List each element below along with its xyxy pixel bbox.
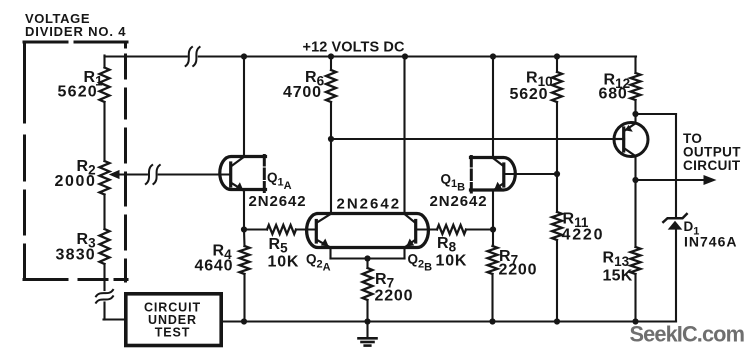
transistor Q1B package xyxy=(471,157,516,193)
label Q1A xyxy=(267,170,292,192)
svg-text:15K: 15K xyxy=(603,268,633,285)
svg-text:10K: 10K xyxy=(268,254,300,271)
svg-text:CIRCUIT: CIRCUIT xyxy=(683,158,741,173)
resistor R13 xyxy=(631,247,641,274)
wire +12V rail xyxy=(105,55,637,57)
wire R2 to R3 xyxy=(103,195,105,230)
resistor R1 xyxy=(100,68,110,103)
value 3830 (R3) xyxy=(56,247,96,264)
Q2B base bar xyxy=(414,221,417,243)
Q2B collector lead xyxy=(405,214,416,223)
resistor R10 xyxy=(552,72,562,102)
wire junction to R5 xyxy=(244,228,267,230)
label 2N2642 (Q1A) xyxy=(249,193,307,210)
value 4700 (R6) xyxy=(283,84,322,101)
label R4 xyxy=(213,243,233,263)
node R12 emitter xyxy=(632,111,638,117)
svg-text:2N2642: 2N2642 xyxy=(337,196,402,213)
wire Q2B base to R8 xyxy=(416,228,438,230)
label R11 xyxy=(563,211,589,231)
node rail-Q1B xyxy=(490,53,496,59)
wire R1 to R2 xyxy=(103,102,105,161)
wire R7 to bottom rail xyxy=(366,300,368,322)
label R6 xyxy=(305,69,325,89)
diode D1 zener xyxy=(663,214,686,230)
transistor Q3 output xyxy=(614,123,648,157)
label R5 xyxy=(269,236,289,256)
value 4220 (R11) xyxy=(562,227,605,244)
wire R13 to bottom rail xyxy=(634,274,636,322)
resistor R4 xyxy=(240,246,250,274)
wire Q1B base to R10 line xyxy=(505,173,557,175)
svg-text:+12 VOLTS DC: +12 VOLTS DC xyxy=(303,40,405,56)
svg-text:5620: 5620 xyxy=(510,86,549,103)
node bottom-R7b xyxy=(489,318,495,324)
resistor R6 xyxy=(326,70,336,102)
wire node to D1 branch xyxy=(636,114,677,219)
break symbol below R3 xyxy=(96,290,113,303)
break symbol on +12V rail xyxy=(186,47,200,66)
label R7 (Q1B) xyxy=(499,248,518,268)
wire R11 to bottom rail xyxy=(556,240,558,322)
node bottom-R4 xyxy=(241,318,247,324)
svg-text:4700: 4700 xyxy=(283,84,322,101)
label 2N2642 (Q1B) xyxy=(430,193,488,210)
wire junction to R4 xyxy=(243,230,246,247)
resistor R11 xyxy=(552,212,562,240)
value 2200 (R7 Q1B) xyxy=(499,262,538,279)
resistor R5 xyxy=(267,225,296,234)
svg-text:2000: 2000 xyxy=(55,173,97,190)
svg-text:DIVIDER NO. 4: DIVIDER NO. 4 xyxy=(25,24,126,39)
SeekIC.com watermark xyxy=(630,322,745,347)
label R12 xyxy=(604,72,631,92)
wire bottom rail xyxy=(244,320,676,322)
svg-text:10K: 10K xyxy=(436,253,468,270)
label R13 xyxy=(603,250,630,270)
resistor R12 xyxy=(631,73,641,100)
label 2N2642 (Q2) xyxy=(337,196,402,213)
node R8 junction xyxy=(490,226,496,232)
CIRCUIT UNDER TEST box xyxy=(126,294,221,346)
wire node to Q2A collector xyxy=(330,139,332,214)
node rail-R6 xyxy=(328,53,334,59)
voltage divider title xyxy=(25,11,126,39)
value IN746A (D1) xyxy=(684,234,737,250)
svg-text:4640: 4640 xyxy=(195,258,234,275)
svg-text:TEST: TEST xyxy=(155,326,191,340)
wire box to ground rail xyxy=(222,320,245,322)
svg-text:2N2642: 2N2642 xyxy=(249,193,307,210)
wire base feed line xyxy=(331,138,614,140)
resistor R2 potentiometer xyxy=(100,161,110,195)
wire rail to Q1B collector xyxy=(492,57,494,159)
ground xyxy=(359,322,377,346)
label Q2B xyxy=(408,252,433,274)
R2 wiper arrow xyxy=(109,170,147,179)
svg-text:Q2B: Q2B xyxy=(408,252,433,274)
wire bus to R7 xyxy=(366,259,368,269)
node rail-Q1A xyxy=(241,53,247,59)
resistor R8 xyxy=(437,225,466,234)
Q3 base lead xyxy=(614,138,624,140)
wire to output arrow xyxy=(636,175,717,185)
wire rail to R10 xyxy=(556,57,558,73)
Q1A collector lead xyxy=(232,157,245,166)
node bottom-R13 xyxy=(632,318,638,324)
wire R6 to node xyxy=(330,102,332,139)
node bottom-R11 xyxy=(554,318,560,324)
resistor R3 xyxy=(100,229,110,264)
wire R3 down xyxy=(103,264,105,290)
wire Q1B emitter down xyxy=(492,190,494,246)
break symbol on wiper wire xyxy=(146,165,160,184)
wire to circuit-under-test box xyxy=(104,303,127,320)
svg-text:IN746A: IN746A xyxy=(684,234,737,250)
Q1B collector lead xyxy=(493,158,503,166)
node rail-R10 xyxy=(554,53,560,59)
node emitter bus R7 xyxy=(364,255,370,261)
svg-text:R13: R13 xyxy=(603,250,630,270)
wire D1 to bottom rail xyxy=(675,230,677,322)
value 10K (R5) xyxy=(268,254,300,271)
wire rail to R1 xyxy=(103,56,105,68)
svg-text:Q1A: Q1A xyxy=(267,170,292,192)
wire R4 to bottom rail xyxy=(243,274,245,322)
label R8 xyxy=(437,235,457,255)
value 10K (R8) xyxy=(436,253,468,270)
Q1B base bar xyxy=(502,164,505,186)
resistor R7 (Q1B) xyxy=(488,246,498,274)
Q1A emitter lead xyxy=(232,182,244,190)
label D1 xyxy=(684,219,700,237)
value 2200 (R7 Q2) xyxy=(375,288,414,305)
label Q2A xyxy=(306,252,331,274)
svg-text:Q2A: Q2A xyxy=(306,252,331,274)
svg-text:4220: 4220 xyxy=(562,227,605,244)
node Q3 collector output xyxy=(632,177,638,183)
svg-text:2N2642: 2N2642 xyxy=(430,193,488,210)
svg-text:2200: 2200 xyxy=(375,288,414,305)
node bottom-R7a xyxy=(364,318,370,324)
svg-text:3830: 3830 xyxy=(56,247,96,264)
value 2000 (R2) xyxy=(55,173,97,190)
value 5620 (R1) xyxy=(58,84,98,101)
value 15K (R13) xyxy=(603,268,633,285)
Q1B emitter lead xyxy=(494,182,503,190)
Q2A emitter stub xyxy=(329,248,331,259)
svg-text:2200: 2200 xyxy=(499,262,538,279)
svg-text:Q1B: Q1B xyxy=(441,172,466,194)
Q2A base bar xyxy=(315,221,318,243)
label R2 xyxy=(77,158,96,178)
Q2B emitter stub xyxy=(403,248,405,259)
value 4640 (R4) xyxy=(195,258,234,275)
resistor R7 (Q2 emitters) xyxy=(363,268,373,300)
TO OUTPUT CIRCUIT label xyxy=(683,131,741,173)
Q3 collector lead xyxy=(625,149,636,157)
Q3 base bar xyxy=(622,128,625,151)
wire rail to Q1A collector xyxy=(243,57,245,158)
node rail-Q2B xyxy=(402,53,408,59)
label R10 xyxy=(526,70,553,90)
label R7 (Q2) xyxy=(375,271,394,291)
transistor Q1A package xyxy=(220,156,266,192)
wire emitter bus xyxy=(331,257,405,259)
wire R5 to Q2A base xyxy=(296,228,316,230)
wire rail to R6 xyxy=(330,57,332,71)
wire R7b to bottom rail xyxy=(491,274,493,322)
Q2A collector lead xyxy=(317,214,331,223)
wire Q3 collector down xyxy=(634,156,636,247)
label Q1B xyxy=(441,172,466,194)
wire Q1A emitter down xyxy=(243,191,245,230)
node Q1A emitter junction xyxy=(241,226,247,232)
node Q1B base junction xyxy=(554,171,560,177)
voltage divider dashed box xyxy=(24,42,127,281)
CIRCUIT UNDER TEST text xyxy=(144,301,201,340)
wire wiper to Q1A base xyxy=(159,173,230,175)
wire R10 to R11 xyxy=(556,102,558,212)
svg-text:5620: 5620 xyxy=(58,84,98,101)
svg-text:SeekIC.com: SeekIC.com xyxy=(630,322,745,347)
wire R12 to emitter node xyxy=(634,100,636,124)
wire R8 to Q1B emitter line xyxy=(466,228,493,230)
+12 VOLTS DC label xyxy=(303,40,405,56)
value 680 (R12) xyxy=(599,86,628,103)
Q1A base bar xyxy=(229,163,232,186)
label R3 xyxy=(77,231,97,251)
Q3 emitter lead xyxy=(625,124,636,132)
svg-text:680: 680 xyxy=(599,86,628,103)
wire Q2B collector to rail xyxy=(403,57,405,214)
transistor Q2 package xyxy=(307,214,429,248)
value 5620 (R10) xyxy=(510,86,549,103)
node R6 bottom xyxy=(328,136,334,142)
Q2B emitter lead xyxy=(405,239,416,248)
label R1 xyxy=(84,69,104,89)
Q2A emitter lead xyxy=(317,239,331,248)
wire rail corner to R12 xyxy=(634,57,636,74)
